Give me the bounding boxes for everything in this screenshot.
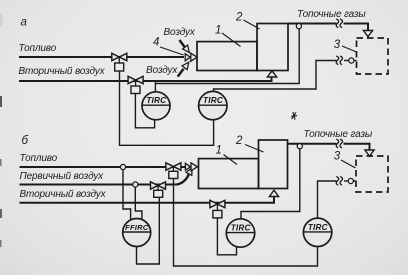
svg-text:б: б — [22, 135, 29, 147]
wire TIRCb2 output loop to valve VFb — [174, 179, 318, 266]
valve V1a (fuel, part a) — [112, 53, 127, 71]
svg-text:2: 2 — [235, 135, 243, 147]
valve VSb (secondary air, part b) — [210, 200, 225, 218]
valve VPb (primary air, part b) — [151, 182, 166, 198]
svg-text:4: 4 — [153, 36, 159, 48]
wire TIRC1a top connection — [154, 81, 156, 92]
svg-text:а: а — [21, 16, 27, 28]
furnace box 1 (b) — [199, 159, 259, 189]
wire pointer 3 (a) — [342, 46, 357, 52]
burner nozzle (b) — [185, 163, 197, 171]
sensor tap circle on primary air line (b) — [133, 182, 138, 187]
controller TIRC2 (a) — [199, 91, 227, 119]
consumer box 3 (a, dashed) — [357, 38, 389, 74]
svg-text:Воздух: Воздух — [146, 65, 178, 76]
wire TIRC1a output loop to valve V2a — [135, 94, 154, 128]
valve VFb (fuel, part b) — [166, 163, 181, 179]
svg-text:Воздух: Воздух — [164, 27, 196, 38]
wire flue gas line (a) — [288, 23, 337, 25]
arrow primary air into burner (b) — [177, 168, 192, 185]
wire fuel tap to FFIRC — [123, 170, 131, 220]
sensor element circle in box 3 (b) — [348, 178, 353, 183]
controller TIRC2 (b) — [303, 218, 331, 246]
pipe break (a flue) — [336, 19, 342, 28]
arrow into furnace bottom (a) — [267, 71, 276, 77]
svg-text:Топочные газы: Топочные газы — [297, 9, 366, 20]
pipe break (b flue) — [336, 139, 342, 148]
arrow air lower into burner — [178, 62, 189, 76]
sensor tap circle on flue line (a) — [296, 24, 301, 29]
wire flue tap (b) down to TIRCb1 — [241, 149, 300, 219]
svg-text:TIRC: TIRC — [203, 96, 224, 105]
wire primary air line (b) — [20, 184, 179, 186]
svg-text:FFIRC: FFIRC — [125, 223, 149, 232]
furnace box 2 (b) — [259, 140, 288, 189]
controller TIRC1 (a) — [142, 92, 170, 120]
wire sensor line from box3b to TIRCb2 — [318, 181, 357, 218]
wire fuel line (b) — [20, 166, 186, 168]
footnote asterisk — [291, 112, 297, 120]
arrow air upper into burner — [179, 40, 189, 53]
wire TIRCb1 output loop to valve VSb — [217, 218, 236, 255]
pipe break (a sensor) — [336, 56, 342, 65]
wire TIRC2a output loop to valve V1a — [120, 71, 214, 145]
svg-text:Топливо: Топливо — [20, 153, 58, 164]
wire pointer 1 (b) — [224, 155, 238, 165]
controller TIRC1 (b) — [226, 219, 254, 247]
svg-text:1: 1 — [215, 25, 221, 37]
furnace box 2 (a) — [257, 24, 288, 71]
wire secondary air line (b) — [20, 196, 275, 203]
wire sensor line from box3 to TIRC2a — [214, 61, 357, 92]
burner nozzle (a) — [185, 53, 197, 61]
sensor tap circle on flue line (b) — [297, 144, 302, 149]
wire primary air tap to FFIRC — [135, 187, 142, 220]
wire flue tap down to TIRC1a (a) — [155, 29, 299, 84]
wire pointer 1 (a) — [222, 33, 241, 47]
svg-text:Вторичный воздух: Вторичный воздух — [19, 66, 106, 77]
svg-text:TIRC: TIRC — [308, 223, 329, 232]
svg-text:3: 3 — [334, 39, 341, 51]
svg-text:Топливо: Топливо — [19, 43, 57, 54]
arrow into consumer box (b) — [365, 150, 374, 156]
sensor element circle in box 3 (a) — [349, 58, 354, 63]
arrow into furnace bottom (b) — [269, 190, 278, 196]
svg-text:TIRC: TIRC — [231, 224, 252, 233]
arrow into consumer box (a) — [363, 31, 372, 37]
svg-text:Вторичный воздух: Вторичный воздух — [20, 189, 107, 200]
wire flue gas line (b) — [288, 143, 337, 145]
svg-text:2: 2 — [235, 12, 243, 24]
svg-text:Топочные газы: Топочные газы — [304, 129, 373, 140]
svg-text:Первичный воздух: Первичный воздух — [20, 171, 105, 182]
wire secondary air line (a) — [19, 77, 272, 82]
wire pointer from 4 to burner — [160, 47, 184, 55]
svg-text:3: 3 — [334, 150, 341, 162]
controller FFIRC (b) — [123, 219, 151, 247]
svg-text:TIRC: TIRC — [146, 96, 167, 105]
wire fuel line (a) — [19, 56, 184, 58]
valve V2a (secondary air, part a) — [128, 76, 143, 93]
wire pointer 2 (b) — [245, 145, 264, 153]
svg-text:1: 1 — [216, 144, 222, 156]
wire pointer 3 (b) — [341, 160, 356, 168]
consumer box 3 (b, dashed) — [356, 156, 388, 192]
sensor tap circle on fuel line (b) — [120, 164, 125, 169]
wire FFIRC output loop to valve VPb — [137, 198, 160, 265]
furnace box 1 (a) — [197, 42, 257, 71]
wire pointer 2 (a) — [244, 20, 260, 29]
pipe break (b sensor) — [336, 176, 342, 185]
